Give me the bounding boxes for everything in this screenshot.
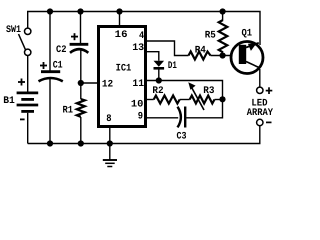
junction R3 C3 node	[219, 96, 225, 102]
wire SW1 to battery	[27, 56, 29, 92]
svg-text:IC1: IC1	[116, 64, 132, 75]
junction bottom rail C1	[47, 140, 53, 146]
junction pin12 node	[78, 80, 84, 86]
wire pin 4 to R4	[147, 41, 189, 56]
LED array minus terminal	[257, 119, 263, 125]
capacitor C1	[39, 72, 63, 82]
battery B1	[17, 93, 39, 112]
svg-text:B1: B1	[3, 96, 15, 107]
wire R1 to bottom rail	[80, 117, 82, 144]
IC U1 box	[99, 27, 146, 127]
transistor Q1	[231, 42, 263, 74]
svg-text:R2: R2	[152, 86, 163, 97]
svg-text:12: 12	[102, 79, 113, 90]
capacitor C3	[178, 107, 186, 128]
svg-text:4: 4	[139, 31, 144, 42]
wire R5 bottom lead	[222, 53, 224, 56]
wire pin 11	[147, 81, 223, 100]
switch SW1 lever	[19, 34, 26, 50]
svg-text:9: 9	[138, 111, 143, 122]
wire R3 to node	[215, 99, 223, 101]
capacitor C2	[70, 44, 89, 53]
svg-text:C2: C2	[56, 45, 67, 56]
svg-text:R5: R5	[205, 30, 216, 41]
wire R2 to R3	[180, 99, 190, 101]
wire pin 9 to C3	[147, 117, 178, 119]
svg-text:8: 8	[106, 114, 111, 125]
junction bottom rail ground	[107, 140, 113, 146]
wire pin 10 lead	[147, 99, 154, 101]
svg-text:SW1: SW1	[6, 25, 21, 36]
LED array plus sign	[266, 87, 273, 94]
junction R4 R5 base	[220, 52, 226, 58]
ground	[103, 144, 117, 167]
svg-text:ARRAY: ARRAY	[247, 108, 273, 119]
wire top rail	[28, 12, 260, 46]
junction top rail C1	[47, 8, 53, 14]
svg-text:R4: R4	[195, 45, 206, 56]
svg-text:D1: D1	[168, 61, 177, 72]
svg-text:11: 11	[132, 79, 144, 90]
wire C2 to R1	[80, 50, 82, 99]
LED array minus sign	[266, 121, 272, 123]
junction D1 pin11	[156, 77, 162, 83]
svg-text:R3: R3	[203, 86, 214, 97]
junction top rail pin16	[116, 8, 122, 14]
wire bottom rail	[28, 126, 260, 144]
junction top rail R5	[220, 8, 226, 14]
junction bottom rail R1	[78, 140, 84, 146]
LED array plus terminal	[257, 87, 263, 93]
svg-text:10: 10	[131, 99, 144, 110]
switch SW1 bottom contact	[25, 49, 31, 55]
junction top rail C2	[77, 8, 83, 14]
svg-text:C3: C3	[177, 131, 187, 142]
wire pin 12	[81, 82, 98, 84]
switch SW1 top contact	[25, 28, 31, 34]
wire pin 16	[119, 12, 121, 26]
wire battery to bottom rail	[27, 113, 29, 144]
svg-text:R1: R1	[63, 105, 74, 116]
svg-text:Q1: Q1	[242, 29, 253, 40]
wire pin 8	[109, 128, 111, 144]
trimmer R3 arrow	[188, 82, 204, 110]
resistor R1	[77, 99, 85, 117]
wire node to C3	[186, 99, 222, 118]
wire R5 top lead	[222, 12, 224, 21]
resistor R2	[154, 96, 180, 104]
capacitor C2 plus sign	[71, 33, 78, 40]
wire Q1 collector to LED plus	[259, 69, 261, 87]
wire pin 13 to D1	[147, 52, 159, 61]
resistor R5	[219, 20, 228, 52]
wire D1 to pin 11 node	[158, 70, 160, 81]
diode D1	[154, 61, 165, 69]
capacitor C1 plus sign	[40, 62, 47, 69]
wire C1 branch bottom	[49, 79, 51, 144]
svg-text:C1: C1	[53, 61, 63, 72]
svg-text:13: 13	[132, 43, 144, 54]
wire R4 to Q1 base	[211, 55, 239, 57]
wire C2 branch top	[80, 12, 82, 44]
battery B1 plus sign	[18, 79, 25, 86]
resistor R4	[189, 52, 211, 60]
wire C1 branch top	[49, 12, 51, 71]
battery B1 minus sign	[20, 118, 25, 120]
resistor R3 (trimmer)	[190, 96, 215, 104]
svg-text:16: 16	[115, 30, 128, 41]
